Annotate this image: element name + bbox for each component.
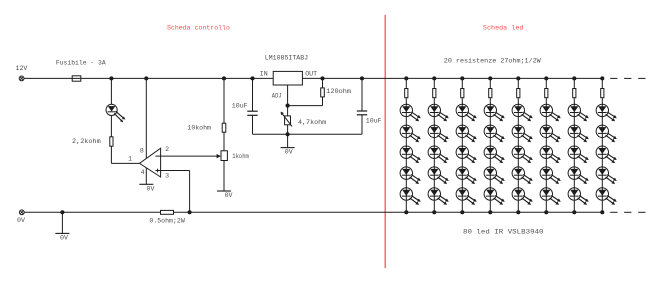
label 80 led IR VSLB3940: [463, 229, 544, 236]
fuse F1 Fusibile 3A: [72, 76, 81, 81]
node junction top rail column 5: [516, 76, 520, 80]
node junction top rail column 3: [460, 76, 464, 80]
svg-text:0.5ohm;2W: 0.5ohm;2W: [149, 217, 184, 224]
wire op-amp pin 4 to ground: [145, 168, 147, 184]
regulator U2 LM1085ITABJ body: [273, 71, 302, 85]
led column 3 row 5: [456, 188, 477, 205]
wire indicator branch upper: [110, 78, 112, 104]
led column 3 row 2: [456, 125, 477, 142]
node junction bottom rail column 3: [460, 210, 464, 214]
svg-text:4: 4: [141, 169, 145, 176]
resistor 27ohm column 7: [573, 89, 576, 98]
led column 5 row 1: [512, 104, 533, 121]
svg-text:0V: 0V: [147, 185, 155, 192]
led column 4 row 3: [484, 146, 505, 163]
wire led column 8: [601, 78, 603, 212]
node junction bottom rail column 7: [572, 210, 576, 214]
led column 3 row 4: [456, 167, 477, 184]
wire top rail from 12V terminal to regulator IN: [24, 77, 273, 79]
node junction top rail / 10kohm divider: [222, 76, 226, 80]
svg-text:0V: 0V: [17, 217, 25, 224]
label 0V bottom rail ground: [60, 235, 68, 242]
label 10uF output: [366, 117, 382, 124]
node ADJ junction: [286, 104, 290, 108]
wire trimmer to ground wire: [287, 125, 289, 135]
led column 5 row 2: [512, 125, 533, 142]
node junction top rail column 2: [432, 76, 436, 80]
resistor 27ohm column 8: [601, 89, 604, 98]
label pin 8: [140, 148, 144, 155]
op-amp U1: [140, 148, 161, 177]
label 10kohm: [187, 125, 211, 132]
node junction top rail / indicator LED branch: [109, 76, 113, 80]
led column 4 row 2: [484, 125, 505, 142]
label pin 3: [165, 173, 169, 180]
label 4,7kohm: [298, 119, 326, 126]
led column 5 row 4: [512, 167, 533, 184]
node junction OUT rail / 120ohm: [320, 76, 324, 80]
svg-text:1kohm: 1kohm: [232, 153, 249, 160]
svg-text:10uF: 10uF: [232, 102, 248, 109]
led column 7 row 3: [568, 146, 589, 163]
led column 7 row 2: [568, 125, 589, 142]
label 2,2kohm: [72, 138, 101, 145]
svg-text:0V: 0V: [225, 192, 233, 199]
led column 8 row 1: [596, 104, 617, 121]
label OUT: [305, 71, 317, 78]
node junction top rail / input capacitor: [250, 76, 254, 80]
resistor 27ohm column 6: [545, 89, 548, 98]
led column 1 row 1: [400, 104, 421, 121]
node junction bottom rail / op-amp pin 3 sense: [188, 210, 192, 214]
svg-text:3: 3: [165, 173, 169, 180]
wire led column 6: [545, 78, 547, 212]
svg-text:2,2kohm: 2,2kohm: [72, 138, 101, 145]
terminal 0V: [19, 210, 24, 215]
node junction top rail column 4: [488, 76, 492, 80]
label pin 4: [141, 169, 145, 176]
svg-text:120ohm: 120ohm: [326, 88, 351, 95]
wire trimmer junction to ground symbol: [287, 134, 289, 147]
label 0V potentiometer ground: [225, 192, 233, 199]
ground bottom rail: [55, 232, 69, 234]
led column 1 row 3: [400, 146, 421, 163]
svg-text:10uF: 10uF: [366, 117, 382, 124]
label Scheda controllo: [167, 24, 230, 31]
svg-text:Fusibile - 3A: Fusibile - 3A: [56, 60, 106, 67]
label 0V op-amp ground: [147, 185, 155, 192]
node junction bottom rail column 4: [488, 210, 492, 214]
led column 2 row 3: [428, 146, 449, 163]
node junction top rail column 6: [544, 76, 548, 80]
wire regulator ADJ pin: [287, 85, 289, 106]
wire regulator ground net: [253, 133, 363, 135]
terminal 12V: [19, 76, 24, 81]
potentiometer R3 1kohm: [221, 151, 227, 161]
wire op-amp pin 3 to current sense node: [161, 171, 190, 213]
svg-text:20 resistenze 27ohm;1/2W: 20 resistenze 27ohm;1/2W: [444, 57, 541, 64]
node junction top rail column 7: [572, 76, 576, 80]
svg-text:0V: 0V: [60, 235, 68, 242]
led column 6 row 2: [540, 125, 561, 142]
svg-text:4,7kohm: 4,7kohm: [298, 119, 326, 126]
wire bottom rail: [24, 211, 602, 213]
op-amp inverting marker: [155, 155, 160, 157]
svg-text:0V: 0V: [285, 149, 293, 156]
label 10uF input: [232, 102, 248, 109]
led column 8 row 2: [596, 125, 617, 142]
led column 4 row 4: [484, 167, 505, 184]
svg-text:Scheda led: Scheda led: [483, 24, 524, 31]
label 0V regulator ground: [285, 149, 293, 156]
wire led column 2: [433, 78, 435, 212]
wire led column 3: [461, 78, 463, 212]
node junction OUT rail / output capacitor: [360, 76, 364, 80]
led column 3 row 1: [456, 104, 477, 121]
resistor R4 120ohm: [288, 78, 325, 105]
led column 7 row 5: [568, 188, 589, 205]
led column 5 row 3: [512, 146, 533, 163]
label 20 resistenze 27ohm;1/2W: [444, 57, 541, 64]
svg-text:ADJ: ADJ: [272, 92, 282, 99]
resistor 27ohm column 1: [405, 89, 408, 98]
wire bottom rail continuation dashes: [610, 211, 645, 213]
label LM1085ITABJ: [265, 55, 308, 62]
led column 8 row 4: [596, 167, 617, 184]
op-amp non-inverting marker: [155, 169, 160, 173]
led column 2 row 4: [428, 167, 449, 184]
led D1 indicator: [106, 104, 125, 122]
led column 5 row 5: [512, 188, 533, 205]
wire op-amp pin 2 to potentiometer wiper: [161, 154, 221, 158]
wire top rail to 10kohm: [223, 78, 225, 123]
wire led column 4: [489, 78, 491, 212]
resistor 27ohm column 2: [433, 89, 436, 98]
led column 2 row 1: [428, 104, 449, 121]
led column 7 row 4: [568, 167, 589, 184]
label Fusibile - 3A: [56, 60, 106, 67]
wire top rail regulator OUT to led board: [302, 77, 602, 79]
led column 4 row 1: [484, 104, 505, 121]
led column 2 row 5: [428, 188, 449, 205]
node junction bottom rail column 6: [544, 210, 548, 214]
label 0.5ohm;2W: [149, 217, 184, 224]
node junction trimmer / ground wire: [286, 132, 290, 136]
trimmer R5 4,7kohm: [281, 106, 292, 127]
wire resistor to op-amp output: [111, 146, 139, 163]
led column 8 row 3: [596, 146, 617, 163]
svg-text:12V: 12V: [16, 65, 28, 72]
label IN: [260, 71, 268, 78]
svg-text:LM1085ITABJ: LM1085ITABJ: [265, 55, 308, 62]
label Scheda led: [483, 24, 524, 31]
led column 6 row 1: [540, 104, 561, 121]
led column 3 row 3: [456, 146, 477, 163]
wire 10kohm to potentiometer: [223, 132, 225, 151]
resistor R1 2,2kohm: [110, 137, 113, 146]
wire led column 5: [517, 78, 519, 212]
led column 7 row 1: [568, 104, 589, 121]
resistor R2 10kohm: [222, 123, 226, 132]
wire top rail continuation dashes: [610, 77, 645, 79]
capacitor C2 10uF output: [357, 78, 367, 134]
led column 2 row 2: [428, 125, 449, 142]
led column 6 row 4: [540, 167, 561, 184]
ground regulator: [281, 147, 295, 149]
capacitor C1 10uF input: [247, 78, 257, 134]
node junction top rail / op-amp pin 8: [144, 76, 148, 80]
led column 1 row 4: [400, 167, 421, 184]
label 12V: [16, 65, 28, 72]
wire led column 1: [405, 78, 407, 212]
wire op-amp pin 8 to top rail: [145, 78, 147, 158]
label pin 2: [165, 146, 169, 153]
svg-text:80 led IR VSLB3940: 80 led IR VSLB3940: [463, 229, 544, 236]
led column 4 row 5: [484, 188, 505, 205]
svg-text:OUT: OUT: [305, 71, 317, 78]
led column 1 row 2: [400, 125, 421, 142]
svg-text:8: 8: [140, 148, 144, 155]
ground op-amp pin 4: [139, 183, 153, 185]
resistor 27ohm column 5: [517, 89, 520, 98]
resistor 27ohm column 4: [489, 89, 492, 98]
label ADJ: [272, 92, 282, 99]
wire bottom rail ground stem: [61, 212, 63, 233]
wire indicator LED to resistor: [110, 116, 112, 137]
svg-text:IN: IN: [260, 71, 268, 78]
svg-text:1: 1: [128, 155, 132, 162]
node junction bottom rail / ground: [60, 210, 64, 214]
label 0V terminal: [17, 217, 25, 224]
wire led column 7: [573, 78, 575, 212]
separator line between boards: [384, 15, 386, 268]
led column 6 row 3: [540, 146, 561, 163]
resistor R6 0.5ohm shunt: [161, 210, 174, 214]
label 1kohm: [232, 153, 249, 160]
resistor 27ohm column 3: [461, 89, 464, 98]
node junction bottom rail column 8: [600, 210, 604, 214]
node junction bottom rail column 2: [432, 210, 436, 214]
node junction top rail column 8: [600, 76, 604, 80]
svg-text:Scheda controllo: Scheda controllo: [167, 24, 230, 31]
led column 1 row 5: [400, 188, 421, 205]
label pin 1: [128, 155, 132, 162]
label 120ohm: [326, 88, 351, 95]
wire potentiometer to ground: [223, 161, 225, 192]
led column 6 row 5: [540, 188, 561, 205]
ground potentiometer: [217, 190, 231, 192]
node junction bottom rail column 5: [516, 210, 520, 214]
svg-text:2: 2: [165, 146, 169, 153]
led column 8 row 5: [596, 188, 617, 205]
node junction top rail column 1: [404, 76, 408, 80]
svg-text:10kohm: 10kohm: [187, 125, 211, 132]
node junction bottom rail column 1: [404, 210, 408, 214]
